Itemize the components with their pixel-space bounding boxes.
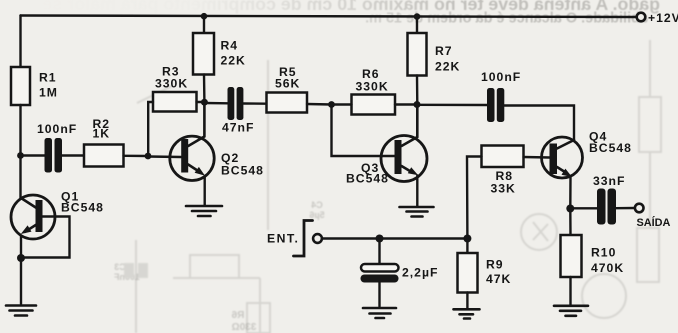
label R1 1M bbox=[39, 71, 58, 100]
wire rail to R1 bbox=[19, 16, 21, 68]
node junction R5/R6/Q3 base bbox=[328, 101, 335, 108]
node junction Q1 emitter/base loop bbox=[17, 254, 25, 262]
svg-text:33nF: 33nF bbox=[593, 174, 625, 188]
svg-text:47nF: 47nF bbox=[222, 121, 254, 135]
wire node E to R9 bbox=[466, 239, 468, 254]
wire node to Q1 collector bbox=[19, 156, 21, 200]
svg-text:R1: R1 bbox=[39, 71, 57, 85]
svg-text:22K: 22K bbox=[221, 54, 246, 68]
svg-text:1K: 1K bbox=[93, 127, 111, 141]
label R7 22K bbox=[435, 44, 460, 74]
svg-text:R4: R4 bbox=[221, 39, 239, 53]
transistor Q1 bbox=[11, 195, 55, 239]
svg-text:SAÍDA: SAÍDA bbox=[637, 216, 671, 229]
resistor R2 bbox=[84, 145, 124, 167]
svg-text:BC548: BC548 bbox=[61, 201, 104, 215]
label R6 330K bbox=[356, 67, 389, 94]
svg-text:2,2µF: 2,2µF bbox=[402, 266, 438, 280]
resistor R8 bbox=[482, 146, 524, 168]
wire C4 to output terminal bbox=[616, 207, 635, 210]
wire R2 to base node bbox=[124, 155, 149, 158]
wire node to cap bbox=[24, 154, 45, 156]
wire node D to C4 bbox=[570, 207, 597, 209]
node junction rail/R4 bbox=[201, 13, 208, 20]
svg-text:1M: 1M bbox=[39, 86, 58, 100]
resistor R1 bbox=[11, 67, 30, 105]
transistor Q4 bbox=[542, 137, 583, 178]
wire C2 to R5 bbox=[243, 102, 266, 105]
wire cap to R2 bbox=[62, 154, 84, 156]
svg-text:BC548: BC548 bbox=[346, 172, 389, 186]
label Q2 BC548 bbox=[221, 151, 264, 178]
resistor R7 bbox=[408, 33, 427, 76]
capacitor 100nF (input) bbox=[45, 138, 63, 173]
svg-text:5µ6: 5µ6 bbox=[309, 210, 324, 220]
input terminal ENT bbox=[313, 234, 322, 243]
resistor R10 bbox=[561, 235, 582, 277]
label R9 47K bbox=[486, 258, 511, 287]
resistor R9 bbox=[458, 253, 478, 293]
wire R5 to node B bbox=[307, 103, 332, 106]
node junction R3/R4/C2/Q2 collector bbox=[201, 99, 208, 106]
capacitor C2 47nF bbox=[228, 87, 244, 120]
wire R1 to input node bbox=[19, 105, 21, 156]
capacitor C4 33nF bbox=[597, 189, 616, 225]
resistor R6 bbox=[352, 95, 396, 115]
svg-text:ENT.: ENT. bbox=[267, 232, 299, 246]
node junction R2/R3/Q2 base bbox=[145, 153, 152, 160]
svg-text:BC548: BC548 bbox=[589, 141, 632, 155]
svg-text:330K: 330K bbox=[356, 80, 389, 94]
wire R3 left to base node bbox=[148, 102, 153, 153]
wire Q2 emitter to ground bbox=[203, 176, 205, 205]
svg-text:R7: R7 bbox=[435, 44, 453, 58]
capacitor C5 2.2uF electrolytic bbox=[361, 264, 399, 283]
label R4 22K bbox=[221, 39, 246, 68]
wire node F to node E bbox=[380, 237, 468, 239]
label R10 470K bbox=[591, 246, 624, 276]
input jack bracket bbox=[294, 221, 313, 257]
wire R8 to input node E bbox=[467, 157, 482, 239]
ground Q2 bbox=[186, 206, 222, 216]
wire R3 right to collector node bbox=[197, 101, 205, 103]
wire node B to Q3 base bbox=[332, 105, 395, 157]
wire Q4 emitter down bbox=[569, 177, 572, 209]
ground C5 bbox=[363, 308, 396, 318]
node junction R1/C1/Q1 bbox=[17, 152, 24, 159]
svg-text:330Ω: 330Ω bbox=[232, 322, 257, 333]
node junction Q4 emitter/C4/R10 bbox=[566, 205, 574, 213]
wire R10 to ground bbox=[569, 277, 571, 305]
svg-text:470K: 470K bbox=[591, 261, 624, 275]
wire R4 to collector node bbox=[203, 75, 206, 102]
svg-text:100nF: 100nF bbox=[481, 70, 521, 84]
capacitor C3 100nF bbox=[487, 88, 504, 122]
svg-text:100nF: 100nF bbox=[37, 122, 77, 136]
resistor R5 bbox=[267, 93, 308, 113]
transistor Q2 bbox=[170, 102, 214, 181]
svg-text:BC548: BC548 bbox=[221, 164, 264, 178]
svg-text:+12V: +12V bbox=[648, 11, 678, 25]
label R2 1K bbox=[93, 117, 111, 141]
transistor Q3 bbox=[381, 105, 427, 182]
label Q1 BC548 bbox=[61, 190, 104, 215]
svg-text:33K: 33K bbox=[491, 182, 516, 196]
wire R6 to node C bbox=[395, 103, 417, 105]
svg-text:R10: R10 bbox=[591, 246, 616, 260]
wire +12V supply rail bbox=[21, 16, 637, 18]
wire R7 to node C bbox=[416, 76, 419, 105]
ghost bleed-through layer bbox=[43, 0, 660, 27]
output terminal SAIDA bbox=[635, 204, 644, 213]
node junction R8/R9/ENT bbox=[463, 235, 471, 243]
ground Q3 bbox=[400, 207, 434, 217]
svg-text:22K: 22K bbox=[435, 60, 460, 74]
resistor R4 bbox=[193, 33, 214, 75]
node junction R6/R7/C3/Q3 collector bbox=[414, 101, 421, 108]
wire ENT to node F bbox=[322, 237, 380, 239]
wire collector node to C2 bbox=[204, 102, 227, 105]
label R5 56K bbox=[275, 65, 300, 91]
wire C3 to Q4 collector bbox=[504, 106, 574, 141]
ground R10 bbox=[554, 306, 588, 316]
ground Q1 bbox=[6, 306, 36, 316]
svg-text:C4: C4 bbox=[311, 200, 323, 210]
wire node B to R6 bbox=[332, 103, 352, 105]
wire node D to R10 bbox=[569, 209, 572, 236]
power terminal +12V bbox=[637, 13, 646, 22]
label Q3 BC548 bbox=[346, 161, 389, 186]
label Q4 BC548 bbox=[589, 130, 632, 156]
svg-text:R9: R9 bbox=[486, 258, 504, 272]
wire R9 to ground bbox=[466, 293, 468, 309]
wire rail to R7 bbox=[416, 17, 418, 33]
ground R9 bbox=[454, 309, 480, 318]
svg-text:47K: 47K bbox=[486, 272, 511, 286]
resistor R3 bbox=[153, 92, 197, 112]
wire C5 to ground bbox=[378, 283, 380, 307]
node junction rail/R7 bbox=[414, 13, 421, 20]
wire Q1 emitter down bbox=[20, 236, 22, 305]
label R3 330K bbox=[155, 65, 188, 91]
wire R8 to Q4 base bbox=[524, 156, 550, 159]
svg-text:56K: 56K bbox=[275, 77, 300, 91]
svg-text:R6: R6 bbox=[231, 310, 244, 321]
wire Q1 base feedback loop bbox=[25, 217, 70, 258]
wire node F to C5 bbox=[378, 239, 380, 265]
wire Q3 emitter to ground bbox=[416, 176, 418, 207]
wire base node to Q2 bbox=[148, 155, 181, 158]
node junction ENT/C5 bbox=[376, 235, 384, 243]
label R8 33K bbox=[491, 169, 516, 196]
svg-text:330K: 330K bbox=[155, 77, 188, 91]
wire rail to R4 bbox=[203, 16, 205, 33]
wire node C to C3 bbox=[417, 104, 487, 107]
